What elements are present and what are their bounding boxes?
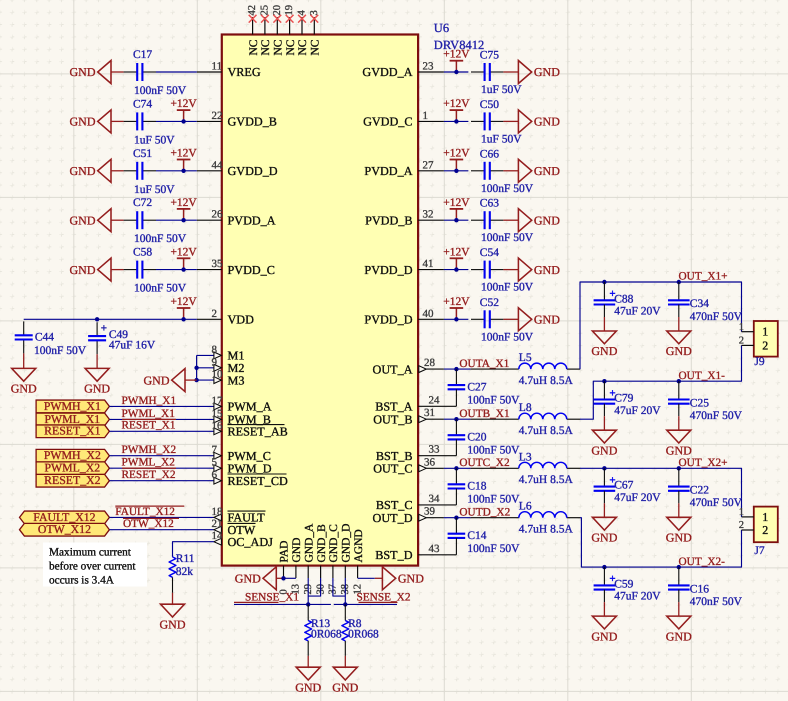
svg-text:22: 22 [212, 110, 223, 122]
wire M1-M2-M3 tie [196, 355, 198, 380]
svg-text:VDD: VDD [228, 313, 255, 327]
svg-text:before over current: before over current [49, 561, 136, 573]
svg-text:+12V: +12V [170, 98, 197, 110]
net label OUTB_X1 [459, 408, 509, 420]
svg-text:OUT_B: OUT_B [373, 412, 412, 426]
no-ERC cross mark [310, 15, 318, 23]
pin 38 GND_D (bottom) [340, 524, 352, 595]
wire VDD rail to C44/C49 [24, 318, 197, 320]
pin 6 RESET_CD [212, 469, 288, 488]
svg-text:PWMH_X2: PWMH_X2 [122, 444, 177, 456]
no-ERC cross mark [273, 15, 281, 23]
wire [444, 170, 469, 172]
net label OUT_X2+ [679, 457, 728, 469]
svg-text:OC_ADJ: OC_ADJ [228, 535, 274, 549]
svg-text:J9: J9 [754, 356, 764, 368]
svg-text:C51: C51 [133, 148, 152, 160]
svg-text:BST_A: BST_A [375, 400, 412, 414]
svg-text:PWML_X2: PWML_X2 [122, 457, 176, 469]
svg-text:11: 11 [212, 61, 223, 73]
svg-text:C17: C17 [133, 49, 152, 61]
capacitor C72 100nF 50V [124, 197, 187, 245]
ground GND at C54 [503, 258, 560, 281]
ground GND at C52 [503, 308, 560, 331]
svg-text:PVDD_D: PVDD_D [364, 313, 412, 327]
svg-text:26: 26 [212, 209, 224, 221]
svg-text:44: 44 [212, 159, 224, 171]
capacitor C18 100nF 50V (bootstrap) [448, 468, 521, 505]
capacitor C66 100nF 50V [471, 148, 534, 195]
net label PWMH_X2 [122, 444, 177, 456]
net label PWML_X2 [122, 457, 176, 469]
pin 17 PWM_A [212, 395, 272, 414]
svg-text:2: 2 [762, 338, 768, 352]
pin 22 GVDD_B [197, 110, 277, 129]
svg-text:0R068: 0R068 [311, 628, 342, 640]
svg-text:40: 40 [423, 308, 435, 320]
wire [109, 430, 213, 432]
ground GND at PAD [235, 567, 284, 590]
svg-text:1uF 50V: 1uF 50V [134, 134, 175, 146]
pin number 19 (rotated) [284, 5, 295, 16]
power +12V [443, 98, 470, 121]
connector J9 [754, 321, 778, 368]
pin 7 PWM_C [212, 444, 271, 463]
wire [444, 318, 469, 320]
svg-text:PAD: PAD [279, 541, 291, 563]
net label OUT_X1- [679, 370, 726, 382]
pin 44 GVDD_D [197, 159, 278, 178]
svg-text:100nF 50V: 100nF 50V [467, 543, 520, 555]
svg-text:35: 35 [212, 258, 224, 270]
svg-text:C34: C34 [690, 298, 709, 310]
svg-text:100nF 50V: 100nF 50V [134, 85, 187, 97]
capacitor C54 100nF 50V [471, 247, 534, 294]
svg-text:4.7uH 8.5A: 4.7uH 8.5A [519, 524, 574, 536]
inductor L3 4.7uH 8.5A [471, 451, 581, 486]
capacitor C34 470nF 50V [668, 282, 743, 323]
svg-text:+12V: +12V [443, 296, 470, 308]
capacitor C63 100nF 50V [471, 198, 534, 245]
power +12V [170, 246, 197, 269]
svg-text:RESET_AB: RESET_AB [228, 425, 288, 439]
capacitor C25 470nF 50V [668, 381, 743, 422]
pin number 3 (rotated) [309, 10, 320, 15]
svg-text:C75: C75 [480, 50, 499, 62]
svg-text:GND: GND [291, 538, 303, 563]
svg-text:47uF 20V: 47uF 20V [614, 405, 661, 417]
wire OUT_X2+ rail [580, 468, 742, 517]
pin 1 of J9 [739, 322, 754, 333]
power +12V [443, 197, 470, 220]
junction [677, 466, 681, 470]
svg-text:2: 2 [739, 336, 744, 347]
net label PWMH_X1 [122, 395, 177, 407]
junction [454, 466, 458, 470]
net label RESET_X1 [122, 420, 176, 432]
pin 2 of J7 [739, 520, 754, 531]
svg-text:+12V: +12V [443, 49, 470, 61]
svg-text:RESET_CD: RESET_CD [228, 474, 288, 488]
wire [109, 405, 213, 407]
svg-text:100nF 50V: 100nF 50V [481, 282, 534, 294]
svg-text:PVDD_A: PVDD_A [364, 164, 412, 178]
net label OTW_X12 (overline) [123, 518, 179, 530]
svg-text:8: 8 [212, 344, 218, 356]
svg-text:L3: L3 [519, 451, 532, 463]
wire [109, 418, 213, 420]
ground GND at C66 [503, 159, 560, 182]
pin 34 BST_C [376, 493, 456, 512]
svg-text:2: 2 [762, 523, 768, 537]
svg-text:PWM_A: PWM_A [228, 400, 272, 414]
svg-text:31: 31 [424, 407, 435, 419]
svg-text:GVDD_D: GVDD_D [228, 164, 278, 178]
svg-text:41: 41 [423, 258, 434, 270]
svg-text:C79: C79 [614, 393, 633, 405]
svg-text:C72: C72 [133, 197, 152, 209]
svg-text:GND: GND [144, 373, 170, 387]
net label OUT_X1+ [679, 271, 728, 283]
capacitor C79 47uF 20V (polarized) [594, 381, 662, 417]
svg-text:36: 36 [424, 456, 436, 468]
junction [95, 317, 99, 321]
svg-text:PWMH_X1: PWMH_X1 [44, 399, 101, 413]
svg-text:470nF 50V: 470nF 50V [690, 596, 743, 608]
net label RESET_X2 [122, 469, 176, 481]
svg-text:GND: GND [534, 263, 560, 277]
ground GND below C49 [84, 354, 110, 395]
svg-text:OUTA_X1: OUTA_X1 [459, 358, 509, 370]
svg-text:21: 21 [212, 518, 223, 530]
svg-text:2: 2 [212, 308, 218, 320]
svg-text:+12V: +12V [170, 148, 197, 160]
ground GND at C74 [70, 110, 124, 133]
pin 8 M1 [197, 344, 245, 363]
svg-text:C22: C22 [690, 485, 709, 497]
pin 12 AGND (bottom) [352, 529, 364, 594]
wire [109, 480, 213, 482]
svg-text:PVDD_A: PVDD_A [228, 213, 276, 227]
port PWMH_X2 [36, 448, 109, 462]
no-ERC cross mark [286, 15, 294, 23]
svg-text:GND: GND [398, 572, 424, 586]
svg-text:OUTD_X2: OUTD_X2 [459, 506, 510, 518]
svg-text:VREG: VREG [228, 65, 261, 79]
svg-text:9: 9 [212, 356, 218, 368]
svg-text:47uF 20V: 47uF 20V [614, 306, 661, 318]
svg-text:23: 23 [423, 61, 435, 73]
svg-text:0R068: 0R068 [348, 628, 379, 640]
pin 0 PAD (bottom) [278, 541, 290, 595]
pin 33 BST_B [376, 444, 456, 463]
svg-text:SENSE_X2: SENSE_X2 [357, 592, 411, 604]
svg-text:GND: GND [591, 344, 617, 358]
svg-text:C63: C63 [480, 198, 499, 210]
svg-text:J7: J7 [754, 545, 764, 557]
pin 30 GND_B (bottom) [315, 524, 327, 595]
pin 18 FAULT [212, 506, 266, 525]
svg-text:3: 3 [309, 10, 320, 15]
ground GND below R8 [332, 656, 358, 695]
wire GND_B jog [308, 578, 320, 596]
pin 21 OTW [212, 518, 256, 537]
port PWML_X1 [36, 412, 109, 426]
svg-text:14: 14 [212, 530, 224, 542]
svg-text:GND: GND [70, 65, 96, 79]
svg-text:100nF 50V: 100nF 50V [34, 345, 87, 357]
ground GND at C50 [503, 110, 560, 133]
capacitor C88 47uF 20V (polarized) [594, 282, 662, 318]
svg-text:GND_C: GND_C [328, 524, 340, 563]
capacitor C49 47uF 16V (polarized) [88, 322, 156, 354]
port OTW_X12 [20, 522, 110, 536]
svg-text:R11: R11 [176, 553, 195, 565]
svg-text:GND: GND [666, 443, 692, 457]
svg-text:SENSE_X1: SENSE_X1 [245, 592, 299, 604]
wire PAD-GND tie [284, 577, 296, 579]
svg-text:GND: GND [534, 213, 560, 227]
svg-text:L8: L8 [519, 402, 532, 414]
svg-text:1uF 50V: 1uF 50V [481, 133, 522, 145]
pin 1 GVDD_C [363, 110, 444, 129]
overline RESET_AB pin name [228, 424, 285, 426]
svg-text:OUT_X2+: OUT_X2+ [679, 457, 728, 469]
net label SENSE_X1 [234, 592, 299, 604]
svg-text:1uF 50V: 1uF 50V [134, 184, 175, 196]
svg-text:C14: C14 [467, 530, 486, 542]
svg-text:GND: GND [591, 629, 617, 643]
svg-text:PVDD_D: PVDD_D [364, 263, 412, 277]
svg-text:GND: GND [534, 115, 560, 129]
svg-text:1: 1 [423, 110, 429, 122]
wire OUT_X1+ rail [580, 282, 742, 369]
wire [156, 219, 197, 221]
port FAULT_X12 [20, 510, 110, 524]
svg-text:GND_B: GND_B [316, 524, 328, 563]
svg-text:4.7uH 8.5A: 4.7uH 8.5A [519, 375, 574, 387]
junction [677, 280, 681, 284]
inductor L6 4.7uH 8.5A [471, 501, 581, 536]
pin number 20 (rotated) [272, 5, 283, 16]
op-amp U6 DRV8412 driver IC body [222, 35, 418, 566]
resistor R13 0R068 [305, 604, 342, 656]
wire AGND to ground [358, 577, 375, 579]
svg-text:GND: GND [666, 344, 692, 358]
svg-text:82k: 82k [176, 566, 194, 578]
junction [306, 602, 310, 606]
junction [454, 70, 458, 74]
svg-text:NC: NC [273, 39, 285, 55]
junction [181, 317, 185, 321]
port RESET_X2 [36, 473, 109, 487]
svg-text:GND: GND [534, 313, 560, 327]
note: maximum current text [43, 543, 147, 587]
port PWML_X2 [36, 461, 109, 475]
wire [109, 467, 213, 469]
svg-text:GVDD_B: GVDD_B [228, 115, 277, 129]
pin 23 GVDD_A [362, 61, 444, 80]
svg-text:PWML_X1: PWML_X1 [122, 408, 175, 420]
ground GND at C75 [503, 61, 560, 84]
svg-text:OUT_X1-: OUT_X1- [679, 370, 726, 382]
capacitor C22 470nF 50V [668, 468, 743, 509]
junction [181, 169, 185, 173]
svg-text:+12V: +12V [443, 148, 470, 160]
pin NC (pin 25) top pin 2 [260, 17, 272, 56]
capacitor C20 100nF 50V (bootstrap) [448, 419, 521, 456]
junction [454, 218, 458, 222]
wire [444, 219, 469, 221]
pin 10 M3 [197, 369, 245, 388]
svg-text:100nF 50V: 100nF 50V [134, 233, 187, 245]
svg-text:OTW_X12: OTW_X12 [123, 518, 174, 530]
resistor R11 82k [169, 553, 195, 578]
pin 13 GND (bottom) [291, 538, 303, 595]
svg-text:GND: GND [235, 572, 261, 586]
junction [343, 602, 347, 606]
svg-text:GND: GND [591, 531, 617, 545]
svg-text:GND_A: GND_A [303, 523, 315, 563]
junction [677, 565, 681, 569]
power +12V [170, 197, 197, 220]
wire OUTB_X1 [444, 418, 471, 420]
svg-text:C54: C54 [480, 247, 499, 259]
svg-text:1: 1 [762, 510, 768, 524]
svg-text:+: + [101, 323, 107, 335]
svg-text:15: 15 [212, 408, 224, 420]
wire [444, 120, 469, 122]
svg-text:occurs is 3.4A: occurs is 3.4A [49, 575, 115, 587]
net label SENSE_X2 [357, 592, 411, 604]
svg-text:OUT_X1+: OUT_X1+ [679, 271, 728, 283]
ground GND below C16 [666, 602, 692, 643]
svg-text:C67: C67 [614, 480, 633, 492]
svg-text:GND: GND [70, 213, 96, 227]
svg-text:27: 27 [423, 159, 435, 171]
pin 41 PVDD_D [364, 258, 443, 277]
power +12V [443, 296, 470, 319]
pin NC (pin 42) top pin 1 [248, 17, 260, 56]
wire OC_ADJ to R11 [173, 542, 214, 557]
pin 40 PVDD_D [364, 308, 443, 327]
pin number 42 (rotated) [247, 5, 258, 16]
svg-text:43: 43 [429, 543, 441, 555]
ground GND below C59 [591, 602, 617, 643]
wire SENSE_X1 [234, 603, 331, 605]
pin 27 PVDD_A [364, 159, 443, 178]
wire SENSE_X2 [334, 603, 397, 605]
wire OUTA_X1 [444, 368, 471, 370]
svg-text:NC: NC [285, 39, 297, 55]
pin 31 OUT_B [373, 407, 444, 426]
svg-text:GVDD_A: GVDD_A [362, 65, 412, 79]
wire GND_D to SENSE_X2 [344, 578, 346, 604]
wire [109, 529, 213, 531]
ground GND below C25 [666, 416, 692, 457]
svg-text:34: 34 [429, 493, 441, 505]
svg-text:GND: GND [534, 164, 560, 178]
svg-text:OUT_D: OUT_D [373, 511, 413, 525]
svg-text:10: 10 [212, 369, 224, 381]
svg-text:C25: C25 [690, 397, 709, 409]
wire GND_A to SENSE_X1 [307, 578, 309, 604]
capacitor C50 1uF 50V [471, 99, 522, 145]
svg-text:GND: GND [70, 115, 96, 129]
svg-text:RESET_X2: RESET_X2 [44, 473, 100, 487]
svg-text:NC: NC [310, 39, 322, 55]
wire [156, 269, 197, 271]
pin 11 VREG [197, 61, 261, 80]
svg-text:1: 1 [762, 325, 768, 339]
svg-text:U6: U6 [434, 21, 449, 35]
pin 9 M2 [197, 356, 245, 375]
power +12V [443, 246, 470, 269]
wire OUT_X2- rail [580, 518, 742, 567]
wire [156, 120, 197, 122]
svg-text:100nF 50V: 100nF 50V [467, 445, 520, 457]
svg-text:100nF 50V: 100nF 50V [467, 394, 520, 406]
svg-text:18: 18 [212, 506, 224, 518]
svg-text:16: 16 [212, 420, 224, 432]
svg-text:L5: L5 [519, 352, 532, 364]
no-ERC cross mark [249, 15, 257, 23]
svg-text:100nF 50V: 100nF 50V [467, 494, 520, 506]
capacitor C59 47uF 20V (polarized) [594, 567, 662, 603]
svg-text:PVDD_C: PVDD_C [228, 263, 275, 277]
junction [454, 367, 458, 371]
wire OUTC_X2 [444, 467, 471, 469]
overline RESET_CD pin name [228, 473, 287, 475]
no-ERC cross mark [298, 15, 306, 23]
svg-text:C88: C88 [614, 293, 633, 305]
svg-text:32: 32 [423, 209, 434, 221]
svg-text:OUT_X2-: OUT_X2- [679, 556, 726, 568]
capacitor C27 100nF 50V (bootstrap) [448, 369, 521, 406]
svg-text:FAULT_X12: FAULT_X12 [115, 506, 175, 518]
inductor L8 4.7uH 8.5A [471, 402, 581, 437]
pin NC (pin 19) top pin 4 [285, 17, 297, 56]
pin 43 BST_D [375, 543, 456, 562]
svg-text:6: 6 [212, 469, 218, 481]
svg-text:RESET_X1: RESET_X1 [44, 424, 100, 438]
ground GND at C51 [70, 159, 124, 182]
resistor R8 0R068 [342, 604, 379, 656]
svg-text:C18: C18 [467, 481, 486, 493]
svg-text:100nF 50V: 100nF 50V [134, 283, 187, 295]
no-ERC cross mark [261, 15, 269, 23]
svg-text:NC: NC [248, 39, 260, 55]
pin 26 PVDD_A [197, 209, 276, 228]
svg-text:GND: GND [70, 164, 96, 178]
junction [454, 169, 458, 173]
svg-text:19: 19 [284, 5, 295, 16]
svg-text:OUT_A: OUT_A [373, 362, 413, 376]
svg-text:OUTC_X2: OUTC_X2 [459, 457, 510, 469]
svg-text:OUTB_X1: OUTB_X1 [459, 408, 509, 420]
pin 15 PWM_B [212, 408, 271, 427]
svg-text:100nF 50V: 100nF 50V [481, 183, 534, 195]
svg-text:470nF 50V: 470nF 50V [690, 311, 743, 323]
svg-text:+12V: +12V [170, 296, 197, 308]
junction [454, 267, 458, 271]
svg-text:1: 1 [739, 507, 744, 518]
junction [181, 119, 185, 123]
svg-text:GVDD_C: GVDD_C [363, 115, 412, 129]
svg-text:C27: C27 [467, 381, 486, 393]
capacitor C74 1uF 50V [124, 98, 176, 146]
svg-text:42: 42 [247, 5, 258, 16]
